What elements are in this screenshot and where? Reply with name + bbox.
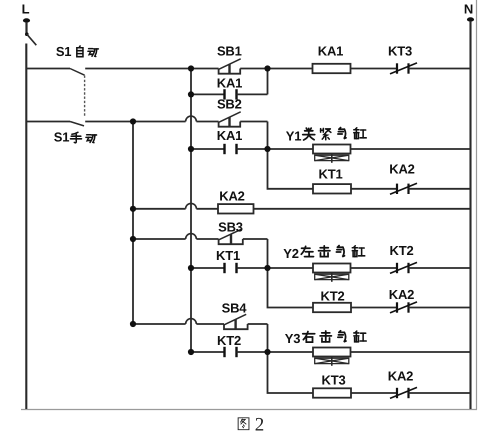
svg-text:KT2: KT2 (390, 243, 414, 258)
wire hop over bus3 SB3 row (186, 234, 197, 239)
contact KA2 third (NC) (390, 387, 417, 398)
svg-text:SB4: SB4 (222, 301, 248, 316)
coil KT2 (313, 303, 351, 312)
junction KT1 row bus3 (188, 265, 194, 271)
wire KA1 aux row left (191, 93, 225, 95)
svg-text:Y2: Y2 (283, 246, 299, 261)
wire SB2 right (240, 121, 267, 123)
junction KA2 row bus2 (130, 206, 136, 212)
contact KA2 (NC) (390, 183, 417, 194)
wire drop SB3 to node C (267, 239, 269, 268)
coil KT3 (313, 388, 351, 397)
wire SB3 row left (133, 238, 186, 240)
svg-text:S1: S1 (54, 130, 70, 145)
wire SB4 right (248, 323, 268, 325)
contact KA2 second (NC) (390, 302, 417, 313)
svg-text:KA1: KA1 (217, 128, 242, 143)
wire L bus (left vertical) (25, 44, 27, 410)
wire KA2 to N end (409, 392, 471, 394)
label S1 auto (56, 44, 99, 59)
svg-text:KT2: KT2 (321, 289, 345, 304)
wire KT2 coil to KA2 (351, 307, 397, 309)
solenoid Y3 (313, 348, 351, 366)
wire SB3 right (243, 238, 268, 240)
svg-text:KA1: KA1 (217, 76, 242, 91)
wire KT1 contact row left (191, 267, 225, 269)
svg-text:KT1: KT1 (216, 248, 240, 263)
svg-text:2: 2 (255, 415, 265, 435)
contact KA1 second (NO) (225, 144, 237, 154)
frame right border (476, 0, 478, 410)
junction node B (264, 146, 270, 152)
coil KA1 (313, 64, 351, 73)
bus 2 (manual feeder) (132, 122, 134, 325)
pushbutton SB1 (219, 59, 241, 74)
junction node C (264, 265, 270, 271)
svg-text:SB3: SB3 (218, 220, 243, 235)
wire KA1 contact to riser (237, 93, 268, 95)
pushbutton SB2 (219, 112, 241, 127)
wire KA1 contact to node B (237, 148, 314, 150)
wire N bus (right vertical) (469, 21, 471, 409)
junction KT2 row bus3 (188, 349, 194, 355)
wire drop node D to KT3 coil row (268, 352, 314, 393)
junction SB4 row bus2 (130, 321, 136, 327)
wire KT2 contact to node D (237, 351, 314, 353)
terminal L (23, 18, 36, 45)
wire top rail left (26, 68, 70, 70)
coil KT1 (313, 184, 351, 193)
contact KT2 (NO) (225, 347, 237, 357)
svg-text:KA2: KA2 (219, 189, 244, 204)
terminal N (467, 17, 474, 21)
wire manual rail left (26, 121, 70, 123)
wire hop over bus3 (186, 116, 197, 121)
pushbutton SB4 (224, 314, 248, 329)
label Y3 (285, 331, 366, 346)
contact KT2 (NC) (390, 262, 417, 273)
svg-text:S1: S1 (56, 44, 72, 59)
wire hop to coil (196, 208, 218, 210)
svg-text:SB1: SB1 (217, 44, 242, 59)
wire drop SB2 to node B (267, 122, 269, 150)
wire KA1 coil to KT3 (351, 68, 398, 70)
wire hop over bus3 KA2 row (186, 203, 197, 208)
wire Y1 to N (351, 148, 471, 150)
wire hop to SB3 (196, 238, 218, 240)
wire KA2 to N (409, 188, 471, 190)
svg-text:KT3: KT3 (322, 373, 346, 388)
coil KA2 (218, 204, 254, 213)
caption figure 2 (238, 415, 264, 435)
frame bottom border (21, 409, 477, 411)
wire KT1 contact to node C (237, 267, 314, 269)
wire top rail mid (85, 68, 218, 70)
solenoid Y2 (313, 264, 351, 282)
wire SB4 row left (133, 323, 186, 325)
wire hop over bus3 SB4 row (186, 319, 197, 324)
label Y2 (283, 246, 364, 261)
solenoid Y1 (313, 145, 351, 163)
junction node D (264, 349, 270, 355)
wire hop to SB4 (196, 323, 224, 325)
svg-text:SB2: SB2 (217, 97, 242, 112)
svg-text:KA2: KA2 (389, 162, 414, 177)
svg-text:N: N (464, 2, 473, 17)
svg-text:KA1: KA1 (318, 44, 343, 59)
junction SB3 row bus2 (130, 236, 136, 242)
wire KA2 to N rail (409, 307, 471, 309)
wire Y2 to KT2 (351, 267, 398, 269)
svg-text:KA2: KA2 (388, 369, 413, 384)
junction manual rail bus2 (130, 118, 136, 124)
junction node top rail bus3 (188, 65, 194, 71)
contact KT1 (NO) (225, 263, 237, 273)
junction KA1 row bus3 (188, 91, 194, 97)
svg-text:L: L (22, 2, 30, 17)
wire manual rail mid (85, 121, 185, 123)
wire riser node A (267, 69, 269, 95)
wire KT3 to N (409, 68, 471, 70)
contact KA1 (NO) (225, 89, 237, 99)
switch S1 auto blade (70, 69, 85, 76)
wire KT1 coil to KA2 (351, 188, 397, 190)
wire KT3 coil to KA2 (351, 392, 397, 394)
wire SB1 to node A (240, 68, 312, 70)
wire drop SB4 to node D (267, 324, 269, 352)
svg-text:KA2: KA2 (389, 287, 414, 302)
wire KT2 contact row left (191, 351, 225, 353)
wire Y3 to N (351, 351, 471, 353)
svg-text:KT2: KT2 (217, 333, 241, 348)
wire drop node C to KT2 coil row (268, 268, 314, 308)
wire KA2 coil to N (254, 208, 471, 210)
label S1 manual (54, 130, 97, 145)
wire drop node B to KT1 coil row (268, 149, 314, 189)
switch S1 manual blade (70, 122, 84, 126)
contact KT3 (NC) (390, 63, 417, 74)
svg-text:KT3: KT3 (388, 44, 412, 59)
junction node A (264, 65, 270, 71)
wire hop to SB2 (196, 121, 218, 123)
pushbutton SB3 (219, 229, 243, 244)
wire Y1 row left (191, 148, 225, 150)
switch S1 linkage dashed (84, 76, 86, 117)
wire KT2 to N (409, 267, 471, 269)
bus 3 (auto feeder) (190, 69, 192, 353)
svg-text:KT1: KT1 (319, 167, 343, 182)
junction Y1 row bus3 (188, 146, 194, 152)
svg-text:Y3: Y3 (285, 331, 301, 346)
label Y1 (286, 128, 366, 144)
wire KA2 coil row left (133, 208, 186, 210)
svg-text:Y1: Y1 (286, 128, 302, 143)
